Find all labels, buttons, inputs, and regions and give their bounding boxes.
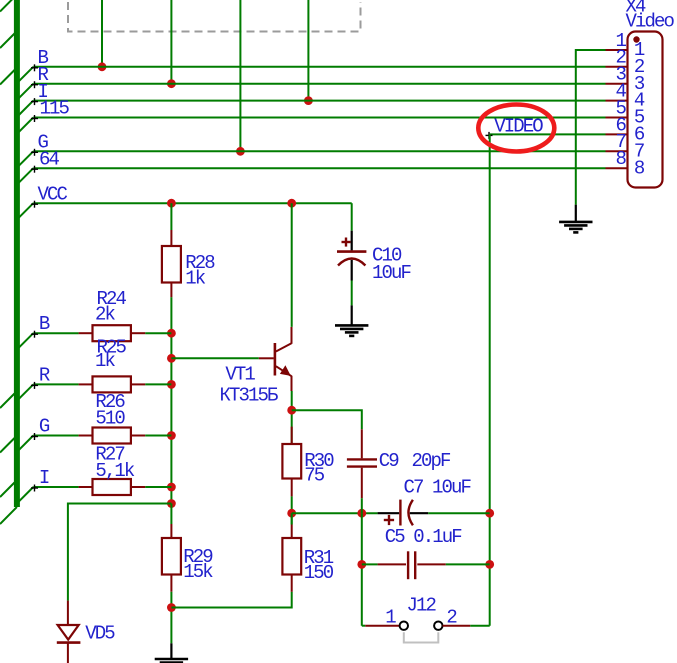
- wire VCC corner to C10: [351, 203, 353, 231]
- svg-text:I: I: [39, 467, 49, 489]
- wire (bus stub lower-left 3): [0, 483, 15, 498]
- wire (stub to net R lower): [17, 384, 33, 400]
- wire R24 to column: [145, 332, 171, 334]
- wire (stub to net G lower): [17, 436, 33, 452]
- wire net B lower: [33, 332, 78, 334]
- wire net G: [33, 150, 605, 152]
- svg-text:510: 510: [95, 408, 125, 430]
- node I start tick: [31, 98, 38, 105]
- svg-text:15k: 15k: [183, 561, 213, 583]
- wire row 513: [292, 512, 378, 514]
- pin 5 stub: [606, 117, 628, 119]
- wire R26 to column: [145, 435, 171, 437]
- node G lower tick: [31, 433, 38, 440]
- wire net B: [33, 66, 605, 68]
- wire VCC to R28: [170, 203, 172, 230]
- wire net G lower: [33, 435, 78, 437]
- svg-text:8: 8: [634, 157, 645, 179]
- svg-text:КТ315Б: КТ315Б: [220, 385, 279, 407]
- svg-text:Video: Video: [626, 11, 675, 33]
- pin 6 stub: [606, 133, 628, 135]
- wire C7 to VIDEO column: [428, 512, 490, 514]
- wire emitter down: [291, 391, 293, 427]
- wire bottom row R29-R31: [171, 592, 291, 608]
- wire C5 to VIDEO column: [446, 563, 490, 565]
- resistor R25: [79, 376, 146, 392]
- wire net R lower: [33, 383, 78, 385]
- svg-text:8: 8: [616, 148, 627, 170]
- wire (vertical drop to net R): [170, 0, 172, 84]
- junction C9 / row 513: [357, 509, 366, 518]
- resistor R24: [79, 325, 146, 341]
- svg-text:1k: 1k: [185, 268, 206, 290]
- ground (near X4 pin1): [559, 205, 592, 233]
- svg-text:G: G: [39, 416, 50, 438]
- svg-text:VCC: VCC: [38, 183, 68, 205]
- wire (stub to net R): [17, 84, 33, 100]
- resistor R31: [282, 525, 301, 592]
- svg-text:VD5: VD5: [85, 623, 115, 645]
- ground (below R29): [155, 643, 188, 663]
- wire collector to VCC: [291, 203, 293, 327]
- node 64 start tick: [31, 166, 38, 173]
- svg-text:2k: 2k: [95, 304, 116, 326]
- wire node to VD5 branch: [68, 504, 171, 601]
- svg-text:115: 115: [40, 98, 70, 120]
- connector J12 jumper: [362, 622, 490, 643]
- svg-text:VIDEO: VIDEO: [494, 116, 543, 138]
- wire (stub to net I): [17, 101, 33, 117]
- junction column / R25: [167, 380, 176, 389]
- junction C5 right / VIDEO column: [485, 560, 494, 569]
- ground (below C10): [335, 305, 368, 336]
- resistor R27: [79, 479, 146, 495]
- wire center column (R28 bottom to node I lower): [170, 297, 172, 503]
- wire base of VT1: [171, 357, 258, 359]
- svg-text:20pF: 20pF: [412, 450, 452, 472]
- resistor R28: [162, 230, 181, 297]
- pin 4 stub: [606, 100, 628, 102]
- wire R29 to ground node: [170, 592, 172, 644]
- junction column / base wire: [167, 354, 176, 363]
- wire (bus stub upper-left 1): [0, 0, 17, 12]
- svg-text:1k: 1k: [95, 350, 116, 372]
- wire column x361 down to J12: [361, 513, 363, 626]
- wire R30 to node row: [291, 496, 293, 524]
- junction VCC / R28 column: [167, 199, 176, 208]
- wire emitter node to R30: [291, 427, 293, 444]
- svg-text:C5 0.1uF: C5 0.1uF: [385, 526, 463, 548]
- wire emitter node to C9: [292, 410, 362, 429]
- wire (bus stub lower-left 2): [0, 438, 15, 453]
- svg-text:64: 64: [39, 148, 60, 170]
- svg-text:150: 150: [304, 562, 334, 584]
- junction column / R27: [167, 483, 176, 492]
- junction (B drop): [98, 62, 107, 71]
- pin 3 stub: [606, 83, 628, 85]
- junction (I drop): [304, 96, 313, 105]
- annotation ellipse around VIDEO: [478, 105, 554, 152]
- wire R25 to column: [145, 383, 171, 385]
- svg-text:1: 1: [385, 607, 396, 629]
- svg-text:2: 2: [446, 607, 457, 629]
- frame (dashed module boundary): [68, 2, 361, 32]
- wire (stub to net G): [17, 151, 33, 167]
- wire (bus stub lower-left 1): [0, 394, 15, 409]
- junction emitter / C9 branch: [287, 406, 296, 415]
- junction R29 / R31 bottom: [167, 603, 176, 612]
- wire C9 to row 513: [361, 498, 363, 513]
- wire (bus stub upper-left 3): [0, 70, 15, 85]
- wire (bus stub lower-left 4): [0, 507, 17, 524]
- wire pin1 to ground: [576, 50, 606, 205]
- connector X4 pin1 mark: [633, 36, 639, 42]
- wire R27 to column: [145, 486, 171, 488]
- svg-text:5,1k: 5,1k: [95, 460, 135, 482]
- wire (stub to net 115): [17, 118, 33, 134]
- node 115 start tick: [31, 115, 38, 122]
- capacitor C9: [347, 429, 377, 498]
- node VIDEO start tick: [486, 132, 493, 139]
- wire VIDEO vertical: [489, 134, 491, 625]
- resistor R30: [282, 427, 301, 497]
- transistor VT1: [259, 327, 292, 391]
- junction VCC / collector column: [287, 199, 296, 208]
- capacitor C5: [378, 551, 446, 579]
- wire C5 left: [362, 563, 378, 565]
- wire (stub to net VCC): [17, 203, 33, 219]
- wire column to R29: [170, 504, 172, 525]
- capacitor C7 (polarized horizontal): [378, 500, 429, 526]
- pin 8 stub: [606, 167, 628, 169]
- wire net VCC: [33, 202, 351, 204]
- wire C10 to ground: [351, 281, 353, 306]
- wire (vertical drop to net I): [307, 0, 309, 101]
- junction column / VD5 branch: [167, 499, 176, 508]
- diode VD5: [57, 601, 81, 663]
- wire net R: [33, 83, 605, 85]
- wire (stub to net I lower): [17, 487, 33, 503]
- node G start tick: [31, 149, 38, 156]
- junction C7 right / VIDEO column: [485, 509, 494, 518]
- svg-text:C7 10uF: C7 10uF: [404, 477, 472, 499]
- wire net VIDEO (to pin 6): [490, 133, 606, 135]
- wire net 64: [33, 167, 605, 169]
- wire (stub to net B lower): [17, 333, 33, 349]
- svg-text:R: R: [39, 364, 50, 386]
- bus (thick vertical net bus): [14, 0, 20, 507]
- svg-text:C9: C9: [379, 450, 400, 472]
- wire (vertical drop to net G): [239, 0, 241, 151]
- wire (stub to net 64): [17, 168, 33, 184]
- svg-text:75: 75: [304, 465, 325, 487]
- junction column / R26: [167, 431, 176, 440]
- node I lower tick: [31, 485, 38, 492]
- wire (bus stub upper-left 2): [0, 33, 15, 48]
- node R start tick: [31, 81, 38, 88]
- wire net I lower: [33, 486, 78, 488]
- wire (vertical drop to net B): [101, 0, 103, 67]
- svg-text:10uF: 10uF: [372, 262, 412, 284]
- pin 1 stub: [606, 49, 628, 51]
- svg-text:VT1: VT1: [225, 364, 255, 386]
- svg-text:J12: J12: [407, 595, 437, 617]
- wire net 115: [33, 117, 605, 119]
- junction R30 / row 513: [287, 509, 296, 518]
- resistor R29: [162, 524, 181, 592]
- wire column to R31: [291, 513, 293, 524]
- junction (G drop): [236, 147, 245, 156]
- node B lower tick: [31, 331, 38, 338]
- connector X4 body: [628, 32, 663, 188]
- node R lower tick: [31, 382, 38, 389]
- capacitor C10 (polarized): [337, 231, 366, 281]
- junction column / R24: [167, 329, 176, 338]
- pin 7 stub: [606, 150, 628, 152]
- junction C5 left / column x361: [357, 560, 366, 569]
- pin 2 stub: [606, 66, 628, 68]
- node VCC start tick: [31, 201, 38, 208]
- wire net I: [33, 100, 605, 102]
- junction (R drop): [167, 79, 176, 88]
- svg-text:B: B: [39, 313, 50, 335]
- wire (stub to net B): [17, 67, 33, 83]
- resistor R26: [79, 428, 146, 444]
- node B start tick: [31, 64, 38, 71]
